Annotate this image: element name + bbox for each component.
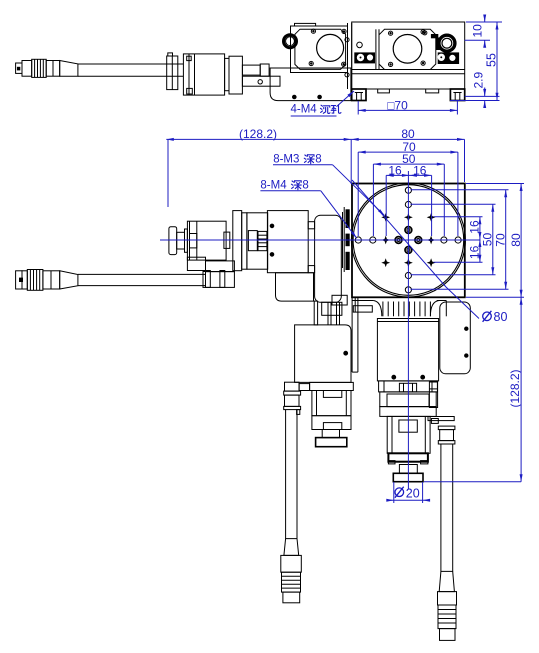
dim 10 [466, 21, 502, 23]
cable 2 [78, 273, 205, 275]
cable down [440, 444, 442, 571]
svg-text:(128.2): (128.2) [508, 369, 522, 407]
svg-text:10: 10 [470, 24, 484, 38]
X motor knob [169, 227, 177, 255]
cable clamp bar [187, 257, 205, 270]
right dim (128.2) [520, 297, 522, 481]
svg-text:80: 80 [494, 310, 508, 324]
cable down [285, 410, 287, 539]
top view: XY stage side elevation [16, 22, 465, 101]
gearbox [387, 416, 430, 453]
svg-text:16: 16 [388, 164, 402, 178]
label D80 leader [352, 180, 479, 319]
output post [399, 465, 417, 474]
Z motor under rotary stage M3 [377, 319, 438, 482]
upper axis stage body [352, 22, 465, 89]
svg-text:16: 16 [468, 245, 482, 259]
right dim 80 [466, 183, 524, 185]
right drop cable [428, 382, 457, 640]
left clamp pads [354, 52, 375, 63]
lock knob K1 [284, 35, 297, 48]
connector J3 [281, 555, 302, 572]
base bottom line [352, 88, 465, 90]
X motor shaft [177, 232, 185, 249]
side bracket (right) [440, 302, 471, 374]
M4 holes on axes [355, 237, 361, 243]
flange [379, 381, 438, 392]
mounting block [267, 211, 308, 273]
stage body below plate [352, 297, 446, 372]
coupling [260, 64, 269, 76]
svg-text:8: 8 [315, 154, 321, 166]
svg-text:80: 80 [509, 233, 523, 247]
vertical bracket [315, 215, 342, 302]
connector J4 [438, 592, 457, 605]
right dim 50 [411, 203, 496, 205]
lower flange [380, 407, 436, 417]
cable gland fitting [428, 417, 454, 421]
svg-text:□70: □70 [387, 98, 408, 112]
svg-text:70: 70 [494, 233, 508, 247]
dim 80 top [350, 139, 352, 184]
dim 50 top [372, 164, 374, 236]
ribs [382, 302, 384, 317]
svg-text:20: 20 [406, 486, 420, 500]
svg-text:(128.2): (128.2) [239, 127, 277, 141]
table bore [317, 34, 344, 61]
support leg [351, 297, 353, 372]
dim 55 [450, 100, 500, 102]
dim square70 [357, 101, 359, 115]
upper moving table [379, 29, 436, 69]
dim 2.9 [465, 95, 500, 97]
bracket foot [332, 295, 347, 305]
shaft [322, 430, 339, 438]
motor flange strip [225, 58, 229, 90]
mid section [380, 392, 436, 407]
block tabs [308, 222, 314, 229]
lower axis stage body [291, 26, 348, 73]
gearbox [233, 211, 242, 271]
cable to motor M1 [78, 63, 183, 65]
base plate of lower axis (rounded) [270, 68, 351, 101]
X motor flange [185, 229, 188, 252]
dim 16 16 top [385, 175, 387, 236]
D20 coupling disc [393, 473, 423, 481]
svg-text:55: 55 [485, 53, 499, 67]
upper table bore [393, 35, 422, 64]
right dim 70 [411, 189, 509, 191]
ext line disc bottom to 128.2 [424, 481, 521, 483]
foot left with counterbore [352, 89, 366, 101]
middle view machinery [169, 207, 351, 305]
shaft boss [224, 232, 230, 248]
center pilot holes [395, 237, 402, 244]
saddle [276, 273, 314, 301]
divider lines [375, 29, 377, 69]
left lower motor M4 [295, 301, 354, 447]
center strip between stages [347, 23, 349, 89]
svg-text:8: 8 [302, 180, 308, 192]
dim (128.2) top [167, 139, 169, 207]
right dim 16 16 [434, 216, 483, 218]
stepper motor M1 (top view) [183, 54, 224, 95]
table screws [311, 29, 315, 33]
left drop cable [281, 382, 302, 603]
legs [314, 301, 317, 325]
second cable assembly (left, horizontal) [16, 257, 235, 290]
cable gland fitting [285, 382, 300, 391]
coupling housing [247, 213, 268, 269]
plug ribs [32, 59, 47, 77]
lead screw shaft [242, 65, 260, 75]
motor body [295, 325, 351, 383]
rotary stage square plate [352, 184, 465, 298]
centerlines [160, 239, 481, 241]
svg-text:4-M4: 4-M4 [291, 104, 318, 116]
foot right with counterbore [450, 89, 464, 101]
svg-text:2.9: 2.9 [471, 72, 485, 89]
lower section [312, 416, 351, 430]
clamp strip [346, 209, 350, 270]
svg-text:50: 50 [481, 233, 495, 247]
base tabs [378, 89, 390, 93]
lock knob K2 [439, 35, 455, 51]
gearbox [312, 391, 351, 416]
rail hole [258, 80, 262, 84]
svg-text:16: 16 [413, 164, 427, 178]
svg-text:8-M3: 8-M3 [273, 154, 299, 166]
rotary table circle D80 [351, 183, 465, 297]
connector J2 [16, 271, 22, 289]
end plate [229, 56, 242, 94]
flange [310, 382, 354, 390]
side rail bar [242, 76, 280, 86]
cable bracket [167, 56, 178, 90]
bottom plate [388, 453, 428, 461]
X stepper motor M2 [187, 221, 226, 260]
upper table screws [389, 31, 393, 35]
M3 hole diamonds [381, 236, 390, 245]
counterbore screws (side) [293, 95, 297, 99]
connector J1 (top-left cable plug) [16, 63, 22, 73]
svg-text:16: 16 [468, 220, 482, 234]
dim D20 [393, 482, 395, 503]
dim 70 top [357, 152, 359, 236]
disc [316, 438, 347, 447]
svg-text:80: 80 [401, 127, 415, 141]
moving table with chamfers [295, 29, 346, 69]
svg-text:8-M4: 8-M4 [260, 180, 287, 192]
right clamp pads [438, 52, 459, 64]
